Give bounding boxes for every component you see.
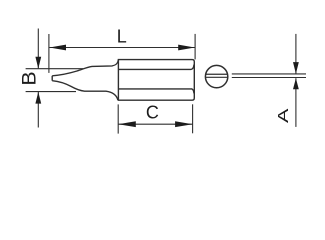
L/C extension line right upper [194,34,196,60]
hex inner flat bottom line [119,89,194,94]
C arrow right [175,121,193,127]
svg-text:L: L [117,26,127,46]
L extension line left [48,34,50,73]
A extension line top [232,73,306,75]
A extension line bottom [232,77,306,79]
B dimension line upper segment [37,29,39,69]
svg-text:A: A [275,108,291,123]
B extension line bottom [26,91,76,93]
end view circle [205,65,227,87]
hex inner flat top line [119,65,194,70]
dimension and extension lines [26,29,306,134]
C extension line right [192,104,194,133]
blade tip edge [51,76,53,81]
A dimension line upper segment [295,34,297,74]
A arrow top (down) [293,62,299,74]
L dimension line [49,47,195,49]
C arrow left [118,121,136,127]
A dimension line lower segment [295,78,297,127]
svg-text:C: C [146,103,159,123]
L arrow left [49,45,66,51]
C extension line left [117,104,119,133]
hex shank outline [118,60,194,101]
C dimension line [118,123,192,125]
svg-text:B: B [19,71,40,85]
A arrow bottom (up) [293,78,299,89]
blade wedge top profile [52,60,118,76]
B arrow top (down) [35,57,41,69]
B arrow bottom (up) [35,92,41,104]
arrowheads [35,45,298,128]
slot lines in end view [206,74,228,77]
B extension line top [26,68,83,70]
blade wedge bottom profile [52,81,118,100]
L arrow right [178,45,195,51]
B dimension line lower segment [37,92,39,128]
